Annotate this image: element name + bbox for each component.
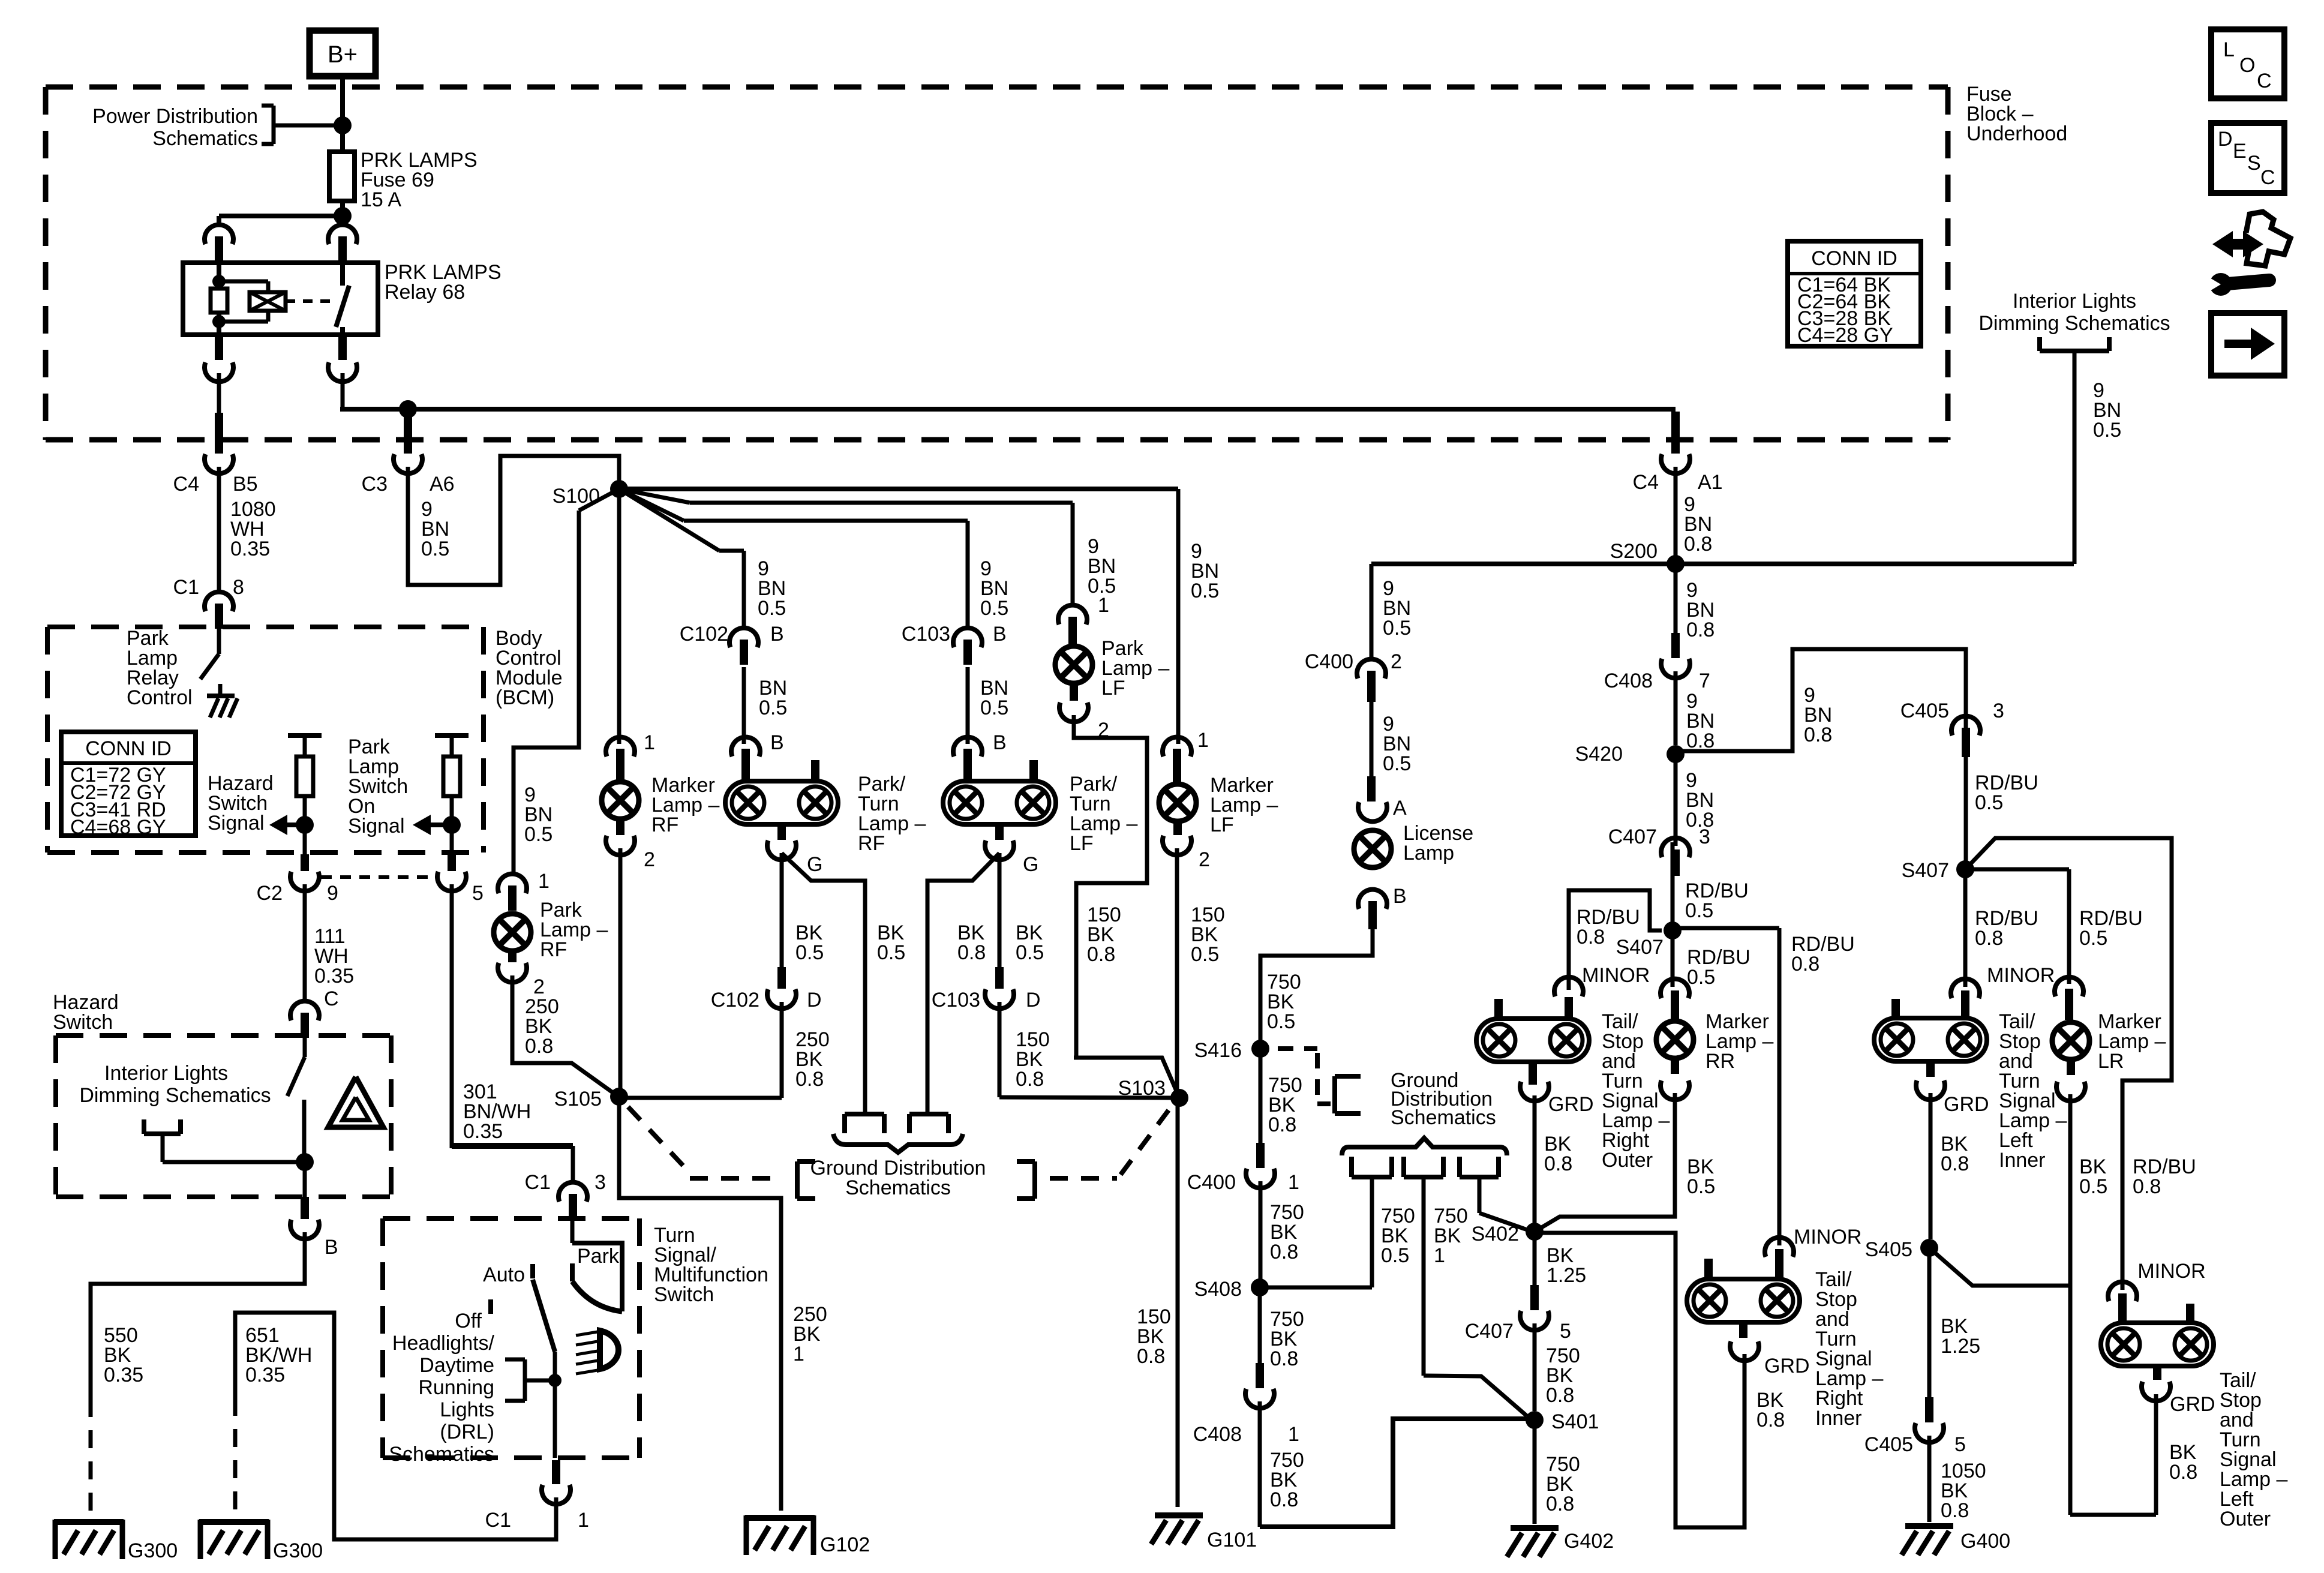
svg-text:3: 3 bbox=[1993, 700, 2004, 722]
svg-text:0.5: 0.5 bbox=[1685, 899, 1713, 922]
svg-text:0.8: 0.8 bbox=[1546, 1493, 1574, 1515]
svg-text:G300: G300 bbox=[273, 1539, 323, 1562]
svg-text:O: O bbox=[2239, 54, 2255, 77]
svg-text:RF: RF bbox=[858, 832, 885, 855]
svg-text:D: D bbox=[1026, 989, 1041, 1011]
svg-text:C4: C4 bbox=[1633, 471, 1659, 494]
svg-text:MINOR: MINOR bbox=[1794, 1226, 1861, 1248]
svg-text:Dimming Schematics: Dimming Schematics bbox=[1978, 312, 2170, 335]
svg-text:GRD: GRD bbox=[1944, 1093, 1989, 1116]
svg-text:C1: C1 bbox=[485, 1509, 511, 1532]
svg-text:0.5: 0.5 bbox=[1267, 1010, 1295, 1033]
svg-text:GRD: GRD bbox=[1548, 1093, 1594, 1116]
svg-text:0.5: 0.5 bbox=[877, 941, 905, 964]
svg-text:0.35: 0.35 bbox=[314, 965, 354, 987]
svg-text:0.5: 0.5 bbox=[1383, 617, 1411, 640]
svg-text:0.5: 0.5 bbox=[980, 697, 1008, 719]
svg-text:Dimming Schematics: Dimming Schematics bbox=[79, 1084, 271, 1107]
svg-text:1.25: 1.25 bbox=[1547, 1264, 1586, 1287]
svg-text:0.5: 0.5 bbox=[1383, 752, 1411, 775]
svg-text:RF: RF bbox=[540, 938, 567, 961]
svg-text:Switch: Switch bbox=[654, 1283, 714, 1306]
svg-text:B: B bbox=[1393, 885, 1407, 908]
svg-text:S200: S200 bbox=[1610, 540, 1658, 563]
svg-text:C103: C103 bbox=[902, 623, 950, 646]
svg-text:MINOR: MINOR bbox=[2137, 1260, 2205, 1283]
svg-text:0.8: 0.8 bbox=[1577, 926, 1605, 948]
svg-text:C: C bbox=[2260, 166, 2275, 189]
svg-text:0.8: 0.8 bbox=[1270, 1241, 1298, 1263]
svg-text:0.5: 0.5 bbox=[1191, 943, 1219, 966]
svg-text:0.5: 0.5 bbox=[1016, 941, 1044, 964]
svg-text:G: G bbox=[807, 853, 822, 876]
svg-text:RF: RF bbox=[651, 813, 678, 836]
svg-text:3: 3 bbox=[594, 1171, 606, 1194]
svg-text:S408: S408 bbox=[1194, 1278, 1242, 1301]
svg-text:A1: A1 bbox=[1698, 471, 1723, 494]
svg-text:15 A: 15 A bbox=[361, 188, 401, 211]
svg-text:0.8: 0.8 bbox=[1546, 1384, 1574, 1407]
svg-text:1: 1 bbox=[644, 731, 655, 754]
svg-text:0.8: 0.8 bbox=[1137, 1345, 1165, 1368]
svg-text:0.8: 0.8 bbox=[1684, 533, 1712, 556]
svg-text:S405: S405 bbox=[1865, 1238, 1912, 1261]
svg-text:S401: S401 bbox=[1551, 1410, 1599, 1433]
svg-text:0.5: 0.5 bbox=[524, 823, 553, 846]
svg-text:0.8: 0.8 bbox=[1544, 1152, 1572, 1175]
svg-text:0.8: 0.8 bbox=[1270, 1488, 1298, 1511]
svg-text:1: 1 bbox=[793, 1343, 804, 1365]
svg-text:0.8: 0.8 bbox=[1804, 724, 1832, 746]
svg-text:G102: G102 bbox=[820, 1533, 870, 1556]
svg-text:1.25: 1.25 bbox=[1941, 1335, 1980, 1358]
svg-text:Schematics: Schematics bbox=[1391, 1106, 1496, 1129]
svg-text:Interior Lights: Interior Lights bbox=[2013, 290, 2136, 313]
svg-text:Lights: Lights bbox=[440, 1398, 494, 1421]
svg-text:G400: G400 bbox=[1960, 1530, 2010, 1553]
svg-text:0.35: 0.35 bbox=[230, 538, 270, 560]
svg-text:0.5: 0.5 bbox=[795, 941, 824, 964]
svg-text:C1: C1 bbox=[173, 576, 199, 599]
svg-text:0.8: 0.8 bbox=[2133, 1175, 2161, 1198]
svg-text:8: 8 bbox=[233, 576, 244, 599]
svg-text:C2: C2 bbox=[257, 882, 283, 905]
svg-text:C1: C1 bbox=[525, 1171, 551, 1194]
svg-text:LR: LR bbox=[2098, 1050, 2124, 1073]
svg-text:Power Distribution: Power Distribution bbox=[92, 105, 258, 128]
svg-text:0.5: 0.5 bbox=[980, 597, 1008, 620]
svg-text:C407: C407 bbox=[1465, 1320, 1514, 1343]
svg-text:S105: S105 bbox=[554, 1088, 602, 1110]
svg-text:C408: C408 bbox=[1604, 670, 1653, 692]
svg-text:CONN ID: CONN ID bbox=[85, 737, 172, 760]
svg-text:2: 2 bbox=[1391, 650, 1402, 673]
svg-text:MINOR: MINOR bbox=[1987, 964, 2055, 987]
svg-text:B+: B+ bbox=[328, 41, 358, 68]
svg-text:Schematics: Schematics bbox=[845, 1176, 951, 1199]
svg-text:LF: LF bbox=[1070, 832, 1094, 855]
svg-text:Outer: Outer bbox=[2220, 1508, 2271, 1530]
svg-text:0.8: 0.8 bbox=[2169, 1461, 2197, 1484]
svg-text:1: 1 bbox=[1098, 594, 1109, 617]
svg-text:Inner: Inner bbox=[1999, 1149, 2046, 1172]
svg-text:Relay 68: Relay 68 bbox=[385, 281, 465, 304]
svg-text:Daytime: Daytime bbox=[419, 1354, 494, 1377]
svg-text:GRD: GRD bbox=[1764, 1355, 1810, 1377]
svg-text:0.8: 0.8 bbox=[1791, 953, 1819, 975]
svg-text:1: 1 bbox=[1197, 729, 1209, 752]
svg-text:0.8: 0.8 bbox=[795, 1068, 824, 1091]
svg-text:Lamp: Lamp bbox=[1403, 842, 1454, 864]
svg-text:1: 1 bbox=[1288, 1171, 1299, 1194]
svg-text:C407: C407 bbox=[1608, 825, 1657, 848]
svg-text:Underhood: Underhood bbox=[1966, 122, 2067, 145]
svg-text:LF: LF bbox=[1210, 813, 1234, 836]
svg-text:E: E bbox=[2233, 140, 2247, 163]
svg-text:A: A bbox=[1393, 797, 1407, 819]
svg-text:B: B bbox=[770, 731, 784, 754]
svg-text:C: C bbox=[324, 987, 339, 1010]
svg-text:0.8: 0.8 bbox=[1270, 1347, 1298, 1370]
svg-text:1: 1 bbox=[578, 1509, 589, 1532]
svg-text:0.8: 0.8 bbox=[1686, 730, 1715, 752]
svg-text:0.5: 0.5 bbox=[1687, 966, 1715, 989]
svg-text:Park: Park bbox=[577, 1245, 620, 1268]
svg-text:2: 2 bbox=[1199, 848, 1210, 871]
svg-text:B: B bbox=[993, 731, 1007, 754]
svg-text:(DRL): (DRL) bbox=[440, 1421, 494, 1443]
svg-text:0.8: 0.8 bbox=[957, 941, 986, 964]
svg-text:5: 5 bbox=[1954, 1433, 1966, 1456]
svg-text:C102: C102 bbox=[680, 623, 728, 646]
svg-text:MINOR: MINOR bbox=[1582, 964, 1650, 987]
svg-text:0.8: 0.8 bbox=[1756, 1409, 1785, 1431]
svg-text:S402: S402 bbox=[1472, 1223, 1519, 1245]
svg-text:G402: G402 bbox=[1564, 1530, 1614, 1553]
svg-text:Control: Control bbox=[127, 686, 193, 709]
svg-text:5: 5 bbox=[1560, 1320, 1571, 1343]
svg-text:0.5: 0.5 bbox=[759, 697, 787, 719]
svg-text:1: 1 bbox=[1288, 1423, 1299, 1446]
svg-text:0.5: 0.5 bbox=[1687, 1175, 1715, 1198]
svg-text:Schematics: Schematics bbox=[389, 1443, 494, 1466]
svg-text:S: S bbox=[2247, 152, 2261, 175]
svg-text:C400: C400 bbox=[1187, 1171, 1236, 1194]
svg-text:C405: C405 bbox=[1900, 700, 1949, 722]
svg-text:Switch: Switch bbox=[53, 1011, 113, 1034]
svg-text:Outer: Outer bbox=[1602, 1149, 1653, 1172]
svg-text:Signal: Signal bbox=[348, 815, 405, 837]
svg-text:1: 1 bbox=[538, 870, 550, 893]
svg-text:0.5: 0.5 bbox=[1381, 1244, 1409, 1267]
svg-text:G101: G101 bbox=[1207, 1529, 1257, 1551]
svg-text:S416: S416 bbox=[1194, 1039, 1242, 1062]
svg-text:S103: S103 bbox=[1118, 1077, 1166, 1100]
svg-text:0.5: 0.5 bbox=[2079, 927, 2107, 950]
svg-text:C4: C4 bbox=[173, 473, 199, 496]
svg-text:C408: C408 bbox=[1193, 1423, 1242, 1446]
svg-text:C3: C3 bbox=[362, 473, 388, 496]
svg-text:0.35: 0.35 bbox=[104, 1364, 143, 1386]
svg-text:CONN ID: CONN ID bbox=[1811, 247, 1897, 270]
svg-text:0.8: 0.8 bbox=[1087, 943, 1115, 966]
svg-text:G300: G300 bbox=[128, 1539, 178, 1562]
svg-text:0.35: 0.35 bbox=[245, 1364, 285, 1386]
svg-text:D: D bbox=[807, 989, 822, 1011]
svg-text:Headlights/: Headlights/ bbox=[392, 1332, 495, 1355]
svg-text:0.8: 0.8 bbox=[1686, 619, 1715, 641]
svg-text:(BCM): (BCM) bbox=[496, 686, 554, 709]
svg-text:Auto: Auto bbox=[483, 1263, 525, 1286]
svg-text:0.5: 0.5 bbox=[1975, 791, 2003, 814]
svg-text:RR: RR bbox=[1706, 1050, 1735, 1073]
svg-text:0.35: 0.35 bbox=[463, 1120, 503, 1143]
svg-text:L: L bbox=[2223, 38, 2235, 61]
svg-text:0.8: 0.8 bbox=[1268, 1113, 1296, 1136]
svg-text:S407: S407 bbox=[1616, 936, 1664, 959]
svg-text:0.8: 0.8 bbox=[525, 1035, 553, 1058]
svg-text:B: B bbox=[993, 623, 1007, 646]
svg-text:0.5: 0.5 bbox=[2079, 1175, 2107, 1198]
svg-text:7: 7 bbox=[1699, 670, 1710, 692]
svg-text:0.5: 0.5 bbox=[758, 597, 786, 620]
svg-text:0.8: 0.8 bbox=[1941, 1152, 1969, 1175]
svg-text:A6: A6 bbox=[430, 473, 455, 496]
svg-text:C405: C405 bbox=[1864, 1433, 1913, 1456]
svg-text:5: 5 bbox=[472, 882, 484, 905]
svg-text:B: B bbox=[770, 623, 784, 646]
svg-text:C: C bbox=[2257, 70, 2272, 92]
svg-text:S407: S407 bbox=[1902, 859, 1949, 882]
svg-text:Schematics: Schematics bbox=[152, 127, 258, 150]
svg-text:S420: S420 bbox=[1575, 743, 1623, 766]
svg-text:9: 9 bbox=[327, 882, 338, 905]
svg-text:0.5: 0.5 bbox=[2093, 419, 2121, 442]
svg-text:G: G bbox=[1023, 853, 1038, 876]
svg-text:0.5: 0.5 bbox=[1191, 580, 1219, 602]
svg-text:B: B bbox=[325, 1236, 338, 1259]
svg-text:Running: Running bbox=[418, 1376, 494, 1399]
svg-text:C4=28 GY: C4=28 GY bbox=[1797, 324, 1893, 347]
svg-text:GRD: GRD bbox=[2170, 1393, 2215, 1416]
svg-text:C103: C103 bbox=[932, 989, 980, 1011]
svg-text:C102: C102 bbox=[711, 989, 759, 1011]
svg-text:0.8: 0.8 bbox=[1975, 927, 2003, 950]
svg-text:Inner: Inner bbox=[1815, 1407, 1862, 1430]
svg-text:B5: B5 bbox=[233, 473, 258, 496]
svg-text:C4=68 GY: C4=68 GY bbox=[70, 816, 166, 839]
svg-text:0.5: 0.5 bbox=[421, 538, 449, 560]
svg-text:C400: C400 bbox=[1305, 650, 1353, 673]
svg-text:0.8: 0.8 bbox=[1016, 1068, 1044, 1091]
svg-text:Signal: Signal bbox=[208, 812, 265, 834]
svg-text:Interior Lights: Interior Lights bbox=[104, 1062, 228, 1085]
svg-text:LF: LF bbox=[1101, 677, 1125, 700]
svg-text:0.8: 0.8 bbox=[1941, 1499, 1969, 1522]
svg-text:2: 2 bbox=[644, 848, 655, 871]
svg-text:0.8: 0.8 bbox=[1686, 809, 1714, 831]
svg-text:1: 1 bbox=[1434, 1244, 1445, 1267]
svg-text:Off: Off bbox=[455, 1310, 482, 1332]
svg-text:D: D bbox=[2218, 128, 2233, 151]
